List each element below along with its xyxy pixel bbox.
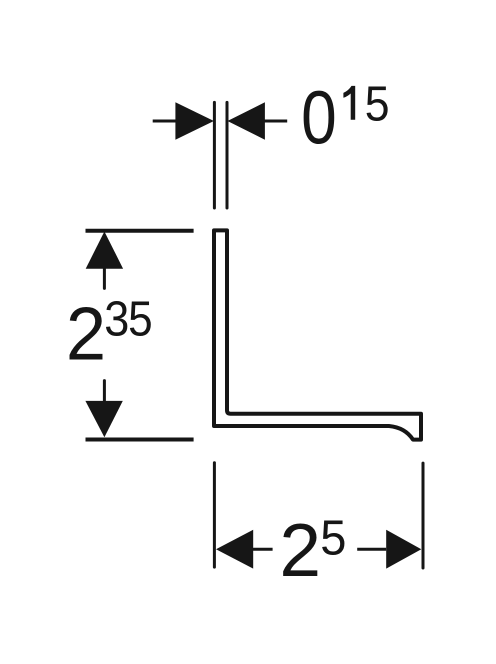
top dimension left arrow tail (153, 120, 176, 123)
svg-text:2: 2 (279, 508, 321, 592)
width dim right tail (357, 548, 386, 551)
L-profile cross-section outline (214, 230, 421, 439)
width dim right arrowhead (386, 530, 421, 569)
extension line right (width dim) (422, 463, 425, 568)
svg-text:5: 5 (128, 291, 153, 346)
svg-text:5: 5 (365, 77, 390, 131)
superscript 1 of 015 (343, 86, 355, 120)
width dim left tail (253, 548, 273, 551)
height dim lower stub (103, 381, 106, 401)
svg-text:0: 0 (301, 76, 337, 160)
width dim left arrowhead (216, 530, 253, 569)
extension line left (width dim) (213, 463, 216, 567)
extension line bottom (height dim) (86, 438, 194, 442)
height dim up arrowhead (86, 232, 123, 269)
top dimension right arrowhead (228, 102, 265, 139)
extension line top (height dim) (86, 229, 194, 233)
extension line left (wall thickness) (213, 102, 216, 208)
top dimension right arrow tail (264, 120, 287, 123)
height dim upper stub (103, 268, 106, 288)
svg-text:3: 3 (104, 291, 129, 346)
extension line right (wall thickness) (226, 102, 229, 208)
top dimension left arrowhead (175, 102, 214, 139)
svg-text:2: 2 (66, 291, 106, 375)
svg-text:5: 5 (320, 512, 346, 566)
height dim down arrowhead (85, 401, 122, 437)
